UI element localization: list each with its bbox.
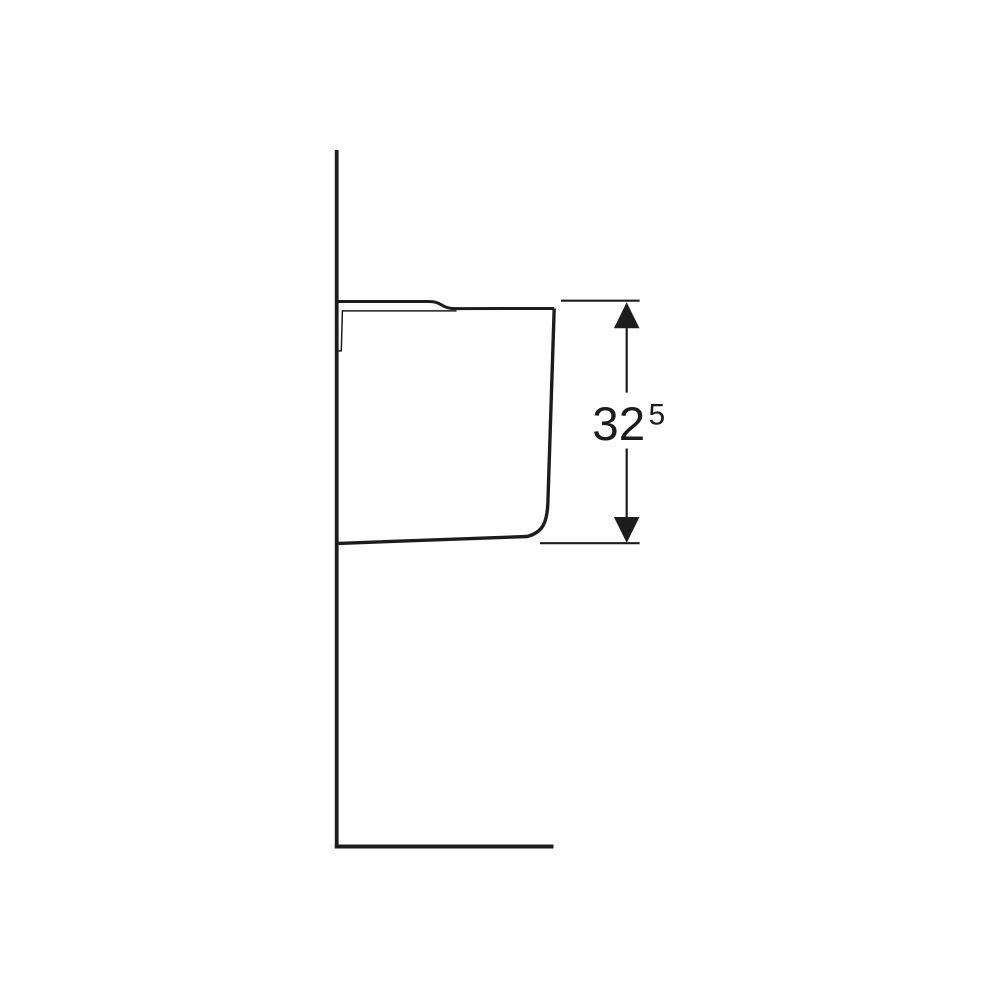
- wall line: [335, 150, 339, 849]
- dimension top extension line: [561, 300, 640, 302]
- fixture top edge (thick, with step down): [338, 302, 554, 309]
- svg-text:32: 32: [592, 398, 645, 451]
- fixture inner thin outline: [339, 311, 457, 351]
- fixture right edge and bottom edge (thick): [339, 309, 555, 544]
- dimension line upper segment: [626, 320, 628, 393]
- dimension line lower segment: [626, 449, 628, 526]
- arrowhead down: [614, 517, 640, 543]
- floor line: [335, 845, 554, 849]
- arrowhead up: [614, 302, 640, 328]
- dimension bottom extension line: [540, 542, 640, 544]
- svg-text:5: 5: [649, 398, 666, 431]
